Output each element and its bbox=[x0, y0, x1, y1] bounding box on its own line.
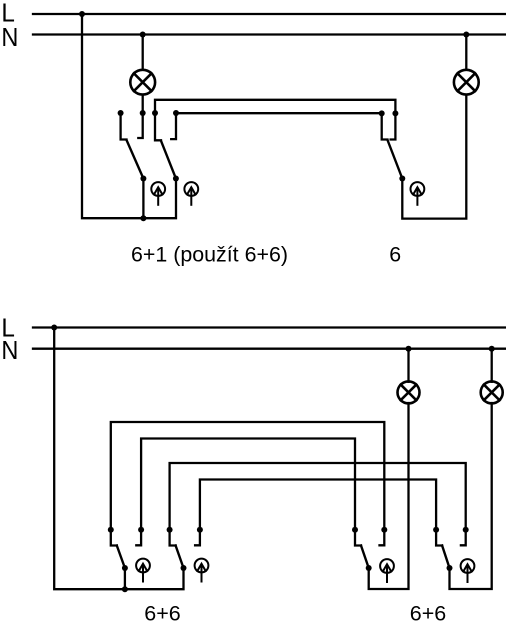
glow lamp in S2 bbox=[184, 182, 198, 205]
wire L bus (top diagram) bbox=[33, 13, 505, 15]
junction dot S1 common bbox=[140, 176, 146, 182]
lamp E2 bbox=[454, 70, 479, 95]
wire N bus to lamp E4 bbox=[491, 349, 493, 382]
junction dot bottom run at S4 common branch bbox=[122, 586, 128, 592]
switch S5 contact 2 lead bbox=[195, 530, 200, 546]
glow lamp in S3 bbox=[411, 182, 425, 205]
terminal dot S7 contact 1 bbox=[433, 527, 439, 533]
junction dot on N bus at lamp E2 bbox=[463, 32, 469, 38]
terminal dot S1 contact 2 bbox=[140, 110, 146, 116]
wire L bus (bottom diagram) bbox=[33, 326, 505, 328]
glow lamp in S5 bbox=[195, 559, 209, 582]
lamp E3 bbox=[398, 381, 420, 403]
terminal dot S5 contact 1 bbox=[167, 527, 173, 533]
junction dot S7 common bbox=[447, 565, 453, 571]
rail wire A (S2 to S3 upper) bbox=[155, 100, 395, 114]
rail wire 3 (S5 to S7) bbox=[170, 463, 466, 530]
svg-text:6+6: 6+6 bbox=[144, 602, 181, 623]
wire L drop to bottom run and S5 common bbox=[54, 328, 183, 590]
wire S1 common down bbox=[142, 179, 144, 219]
wire L drop to bottom run and S2 common bbox=[82, 14, 176, 218]
terminal dot S2 contact 1 bbox=[152, 110, 158, 116]
glow lamp in S4 bbox=[136, 559, 150, 582]
wire N bus to lamp E2 bbox=[465, 35, 467, 70]
junction dot S2 common bbox=[173, 176, 179, 182]
rail wire 4 (S5 to S7) bbox=[200, 480, 436, 530]
switch S6 contact 2 lead bbox=[380, 530, 385, 546]
switch S2 blade bbox=[161, 141, 176, 179]
wire N bus (bottom diagram) bbox=[33, 348, 505, 350]
junction dot bottom run at S1 common branch bbox=[140, 215, 146, 221]
switch S3 blade bbox=[388, 140, 403, 179]
terminal dot S2 contact 2 bbox=[173, 110, 179, 116]
glow lamp in S7 bbox=[461, 559, 475, 582]
junction dot S5 common bbox=[181, 565, 187, 571]
switch S2 contact 2 lead bbox=[171, 113, 176, 139]
switch S7 blade bbox=[442, 546, 449, 569]
svg-text:6: 6 bbox=[389, 242, 401, 266]
terminal dot S4 contact 2 bbox=[138, 527, 144, 533]
switch S5 blade bbox=[176, 546, 184, 569]
terminal dot S7 contact 2 bbox=[463, 527, 469, 533]
junction dot S4 common bbox=[122, 565, 128, 571]
junction dot S6 common bbox=[366, 565, 372, 571]
wire lamp E3 to S6 common bbox=[369, 403, 409, 589]
switch S7 contact 1 lead bbox=[436, 530, 442, 546]
svg-text:6+1 (použít 6+6): 6+1 (použít 6+6) bbox=[131, 242, 288, 266]
junction dot on N bus at lamp E4 bbox=[489, 346, 495, 352]
wire S3 common to lamp E2 bbox=[402, 95, 466, 219]
junction dot on N bus at lamp E3 bbox=[406, 346, 412, 352]
junction dot on L bus bbox=[79, 11, 85, 17]
svg-text:N: N bbox=[1, 335, 18, 365]
wire N bus to lamp E1 bbox=[142, 35, 144, 70]
wire lamp E4 to S7 common bbox=[450, 403, 492, 589]
svg-text:6+6: 6+6 bbox=[410, 602, 447, 623]
junction dot S3 common bbox=[399, 176, 405, 182]
terminal dot S6 contact 2 bbox=[381, 527, 387, 533]
terminal dot S6 contact 1 bbox=[352, 527, 358, 533]
terminal dot S3 contact 1 bbox=[379, 110, 385, 116]
wire N bus (top diagram) bbox=[33, 33, 505, 35]
glow lamp in S1 bbox=[151, 182, 165, 205]
switch S6 contact 1 lead bbox=[355, 530, 361, 546]
switch S3 contact 1 lead bbox=[382, 113, 388, 139]
switch S4 contact 2 lead bbox=[136, 530, 141, 546]
wire N bus to lamp E3 bbox=[407, 349, 409, 382]
rail wire 1 (S4 to S6) bbox=[111, 422, 385, 530]
switch S1 contact 1 lead bbox=[121, 113, 127, 140]
glow lamp in S6 bbox=[380, 559, 394, 582]
switch S4 blade bbox=[117, 546, 125, 569]
switch S7 contact 2 lead bbox=[461, 530, 466, 546]
lamp E4 bbox=[481, 381, 503, 403]
terminal dot S3 contact 2 bbox=[392, 110, 398, 116]
switch S1 blade bbox=[127, 140, 144, 179]
wire S4 common down bbox=[124, 568, 126, 589]
switch S6 blade bbox=[361, 546, 369, 569]
switch S3 contact 2 lead bbox=[391, 113, 396, 139]
switch S2 contact 1 lead bbox=[155, 113, 161, 140]
lamp E1 bbox=[130, 70, 155, 95]
junction dot on N bus at lamp E1 bbox=[140, 32, 146, 38]
wire lamp E1 to switch S1 terminal bbox=[142, 95, 144, 113]
terminal dot S5 contact 2 bbox=[197, 527, 203, 533]
switch S1 contact 2 lead bbox=[138, 113, 142, 138]
switch S4 contact 1 lead bbox=[111, 530, 117, 546]
rail wire B (S2 to S3 lower) bbox=[176, 112, 382, 114]
terminal dot S1 contact 1 bbox=[118, 110, 124, 116]
terminal dot S4 contact 1 bbox=[108, 527, 114, 533]
rail wire 2 (S4 to S6) bbox=[141, 439, 355, 530]
switch S5 contact 1 lead bbox=[170, 530, 176, 546]
junction dot on L bus (bottom) bbox=[51, 325, 57, 331]
svg-text:N: N bbox=[1, 22, 18, 52]
